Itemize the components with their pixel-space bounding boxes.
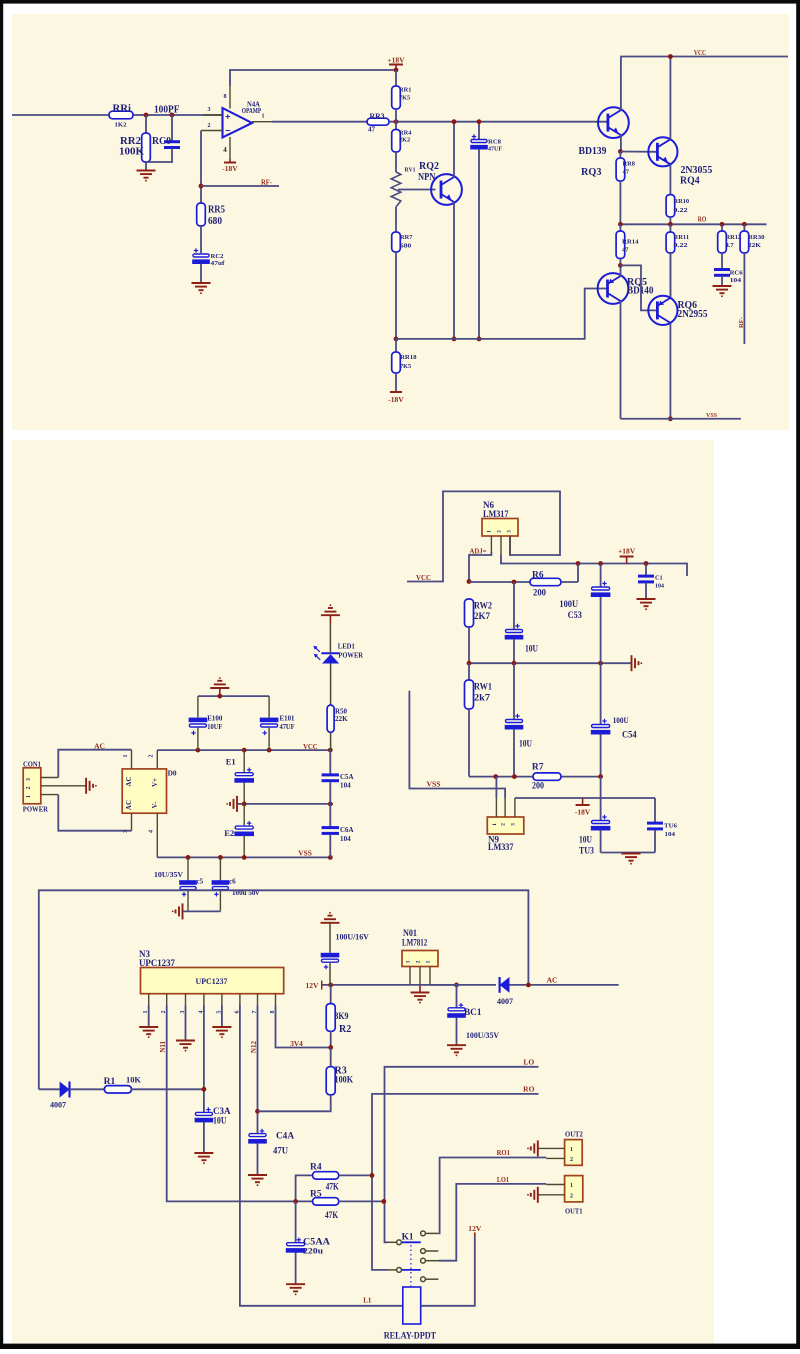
svg-text:RC0: RC0 — [152, 136, 171, 147]
svg-text:RW2: RW2 — [474, 601, 492, 611]
capacitor C4A — [260, 1130, 264, 1132]
wire ADJ down — [469, 552, 491, 582]
wire LED to R50 — [330, 664, 332, 706]
svg-text:1: 1 — [570, 1147, 573, 1153]
svg-text:680: 680 — [208, 216, 222, 227]
svg-text:V+: V+ — [151, 778, 159, 787]
resistor RR14 — [619, 224, 621, 231]
pin 7 N3 — [257, 994, 259, 1005]
wire LO1 from contact — [425, 1260, 438, 1262]
transistor RQ3 BD139 — [598, 107, 629, 138]
svg-text:+18V: +18V — [387, 56, 405, 65]
wire net RF- — [201, 185, 279, 187]
pin 3 CON1 — [41, 777, 59, 779]
svg-text:E100: E100 — [207, 715, 222, 723]
node E mid junctions — [242, 802, 247, 807]
wire VSS rail top schematic — [621, 418, 742, 420]
svg-text:D0: D0 — [168, 769, 177, 778]
node 10U branch — [512, 580, 517, 585]
wire pin6 L1 long — [240, 1005, 403, 1306]
capacitor RC2 — [194, 250, 198, 252]
wire RQ6 collector down — [669, 324, 671, 419]
ground N3 pin5 — [212, 1026, 231, 1028]
svg-text:+: + — [225, 111, 230, 121]
pin 8 V+ — [229, 86, 231, 109]
node bottom rail left — [394, 337, 399, 342]
svg-text:RR12: RR12 — [726, 234, 742, 241]
wire RQ4 collector to VCC — [669, 57, 671, 140]
svg-text:2: 2 — [570, 1157, 573, 1163]
ground N3 pin1 — [139, 1026, 158, 1028]
potentiometer RV1 — [391, 172, 401, 207]
svg-text:4007: 4007 — [50, 1100, 66, 1109]
ground below C1 — [637, 598, 656, 600]
svg-text:10U: 10U — [213, 1116, 227, 1126]
connector OUT2 — [565, 1140, 583, 1166]
transistor RQ2 — [431, 174, 462, 205]
svg-text:2k7: 2k7 — [474, 693, 491, 703]
svg-text:3: 3 — [208, 107, 211, 113]
wire opamp output row — [272, 121, 367, 123]
pin 1 OUT2 — [538, 1147, 565, 1149]
svg-text:RR18: RR18 — [400, 354, 417, 361]
svg-text:3V4: 3V4 — [290, 1040, 303, 1048]
svg-text:1K2: 1K2 — [115, 122, 127, 129]
node RQ3 emitter — [618, 149, 623, 154]
svg-text:RQ2: RQ2 — [419, 161, 439, 172]
transistor RQ6 2N2955 — [648, 296, 677, 325]
wire pin8 3V4 — [276, 1005, 331, 1048]
svg-text:1: 1 — [262, 114, 265, 120]
wire coil right to 12V — [421, 1237, 475, 1306]
regulator N01 LM7812 — [402, 951, 438, 967]
node 3V4 junction — [328, 1045, 333, 1050]
svg-text:RR7: RR7 — [400, 234, 413, 241]
svg-text:1: 1 — [123, 755, 129, 758]
svg-text:3: 3 — [26, 778, 32, 781]
svg-text:3: 3 — [506, 530, 512, 533]
node driver junction — [618, 263, 623, 268]
node pin4 R1 — [202, 1087, 207, 1092]
resistor R4 — [296, 1175, 313, 1201]
pin 3 N3 — [185, 994, 187, 1005]
wire R7 rail — [469, 776, 533, 778]
svg-text:K1: K1 — [402, 1232, 414, 1242]
svg-text:AC: AC — [94, 741, 105, 750]
svg-text:10K: 10K — [126, 1074, 141, 1084]
svg-text:RW1: RW1 — [474, 682, 492, 692]
wire RQ5 emitter up — [620, 265, 622, 276]
pin 2 VIN N9 — [504, 798, 506, 817]
svg-text:200: 200 — [533, 588, 546, 598]
node input junction — [144, 113, 149, 118]
contact A NO — [421, 1231, 426, 1236]
svg-text:2: 2 — [26, 787, 32, 790]
svg-text:LO: LO — [523, 1058, 534, 1067]
wire opamp V+ to +18V rail — [230, 70, 396, 86]
pin 2 inverting — [201, 130, 223, 132]
svg-text:AC: AC — [125, 800, 133, 810]
capacitor E2 — [243, 804, 245, 826]
svg-text:100U/35V: 100U/35V — [466, 1031, 499, 1040]
node +18V junction — [394, 68, 399, 73]
node R5 LO junction — [381, 1199, 386, 1204]
svg-text:C4A: C4A — [276, 1132, 294, 1142]
node RQ2 collector junction — [452, 119, 457, 124]
svg-text:R6: R6 — [532, 570, 544, 580]
capacitor C6A — [329, 804, 331, 827]
svg-text:VCC: VCC — [694, 49, 706, 57]
pin 2 VOUT N6 — [500, 536, 502, 555]
ground below RC2 — [192, 282, 211, 284]
node AC junction — [526, 983, 531, 988]
wire pin1 to ground — [148, 1005, 150, 1027]
pole B contact — [397, 1268, 402, 1273]
svg-text:RR2: RR2 — [120, 136, 141, 147]
pin 4 V- — [229, 137, 231, 159]
node ADJ junction — [467, 579, 472, 584]
node VCC junctions — [196, 748, 201, 753]
svg-text:-18V: -18V — [575, 808, 591, 817]
transistor RQ5 BD140 — [598, 273, 629, 304]
svg-text:C3A: C3A — [213, 1107, 231, 1117]
svg-text:10UF: 10UF — [207, 723, 222, 731]
svg-text:RQ4: RQ4 — [680, 176, 700, 187]
svg-text:R1: R1 — [104, 1077, 116, 1087]
capacitor TU3 — [600, 777, 602, 820]
relay mechanical link — [410, 1245, 412, 1287]
pin 2 N01 — [419, 967, 421, 986]
pin 1 output — [252, 121, 272, 123]
ground mid rail right — [631, 655, 633, 671]
svg-text:680: 680 — [400, 243, 411, 250]
svg-text:TU6: TU6 — [664, 823, 677, 830]
resistor R6 — [530, 578, 561, 585]
svg-text:1: 1 — [426, 960, 432, 963]
svg-text:4: 4 — [223, 146, 227, 154]
svg-text:47uf: 47uf — [211, 260, 226, 267]
wire RQ6 emitter to RR11 — [669, 253, 671, 297]
svg-text:-18V: -18V — [388, 395, 404, 404]
svg-text:RELAY-DPDT: RELAY-DPDT — [384, 1332, 437, 1342]
resistor RR18 — [395, 339, 397, 352]
contact A NC stub — [421, 1249, 426, 1254]
svg-text:100K: 100K — [335, 1074, 354, 1084]
svg-text:10U: 10U — [579, 835, 592, 845]
svg-text:47K: 47K — [325, 1211, 339, 1221]
capacitor RC8 — [478, 122, 480, 139]
svg-text:LM337: LM337 — [488, 842, 514, 852]
resistor R50 — [327, 705, 334, 732]
svg-text:2: 2 — [208, 123, 211, 129]
capacitor E101 — [268, 696, 270, 718]
wire ground to LED — [329, 623, 331, 652]
wire input signal — [12, 114, 223, 116]
svg-text:C6A: C6A — [340, 826, 354, 834]
wire mid ground row bottom — [237, 803, 333, 805]
svg-text:POWER: POWER — [338, 650, 363, 659]
contact B NO — [421, 1258, 426, 1263]
svg-text:12V: 12V — [468, 1224, 482, 1233]
svg-text:100PF: 100PF — [154, 105, 180, 116]
svg-text:3K9: 3K9 — [335, 1012, 349, 1022]
capacitor TU6 — [654, 798, 656, 822]
svg-text:OPAMP: OPAMP — [242, 108, 262, 115]
pin 2 OUT2 — [546, 1157, 564, 1159]
pin 1 CON1 — [41, 794, 59, 796]
ground CON1 pin2 — [85, 778, 87, 794]
node 12V cap junction — [328, 983, 333, 988]
node RF- branch — [199, 184, 204, 189]
svg-text:47U: 47U — [273, 1146, 288, 1156]
svg-text:RR5: RR5 — [208, 205, 225, 216]
svg-text:RO: RO — [698, 216, 707, 224]
resistor R1 — [104, 1086, 131, 1093]
svg-text:1: 1 — [492, 823, 498, 826]
svg-text:LED1: LED1 — [338, 642, 355, 651]
svg-text:BD139: BD139 — [579, 146, 607, 157]
wire mid ground rail — [469, 662, 631, 664]
svg-text:4: 4 — [149, 830, 155, 833]
capacitor C3A — [206, 1109, 210, 1111]
svg-text:2: 2 — [416, 960, 422, 963]
pin 1 N3 — [148, 994, 150, 1005]
wire VSS net — [409, 691, 505, 798]
svg-text:RC2: RC2 — [211, 253, 224, 260]
svg-text:200: 200 — [532, 782, 544, 792]
node RC8 bottom — [477, 337, 482, 342]
wire VCC bottom rail — [157, 749, 330, 751]
wire 12V rail — [322, 984, 457, 986]
pin 5 N3 — [221, 994, 223, 1005]
resistor RR12 — [721, 224, 723, 231]
LED1 POWER chain ground — [321, 614, 340, 616]
capacitor C5AA — [295, 1201, 297, 1242]
svg-text:C5A: C5A — [340, 773, 354, 781]
svg-text:100U: 100U — [559, 599, 578, 609]
regulator N9 LM337 — [487, 817, 524, 834]
svg-text:N12: N12 — [250, 1041, 258, 1054]
capacitor E100 — [197, 696, 199, 718]
svg-text:UPC1237: UPC1237 — [139, 958, 175, 968]
svg-text:V-: V- — [151, 801, 159, 809]
svg-text:R7: R7 — [532, 763, 544, 773]
svg-text:C54: C54 — [622, 730, 637, 740]
svg-text:+18V: +18V — [618, 547, 636, 556]
resistor RR30 — [743, 224, 745, 231]
node R7 junctions — [493, 774, 498, 779]
capacitor BC1 — [456, 985, 458, 1008]
svg-text:RF-: RF- — [261, 178, 273, 186]
pin 2 OUT1 — [538, 1194, 565, 1196]
svg-text:47UF: 47UF — [280, 723, 295, 731]
svg-text:2K7: 2K7 — [474, 611, 490, 621]
svg-text:2: 2 — [501, 823, 507, 826]
svg-text:CON1: CON1 — [23, 759, 41, 768]
power -18V bottom — [390, 391, 402, 393]
wire VCC to LM317 VIN — [407, 491, 560, 581]
capacitor C53 — [600, 564, 602, 587]
wire RO net — [372, 1094, 539, 1270]
resistor RRi — [109, 111, 133, 119]
capacitor c5 — [187, 857, 189, 880]
ground below RR2 — [137, 170, 156, 172]
pole A contact — [397, 1240, 402, 1245]
resistor RR10 — [669, 165, 671, 195]
power -18V symbol — [582, 798, 584, 805]
svg-text:RR11: RR11 — [674, 234, 690, 241]
resistor RR7 — [392, 232, 401, 252]
svg-text:R4: R4 — [310, 1162, 322, 1172]
svg-text:7K5: 7K5 — [399, 94, 411, 101]
node mid rail junctions — [467, 661, 472, 666]
wire RQ3 emitter — [620, 135, 622, 152]
svg-text:R2: R2 — [339, 1024, 351, 1035]
ground below RC6 — [713, 285, 732, 287]
ground c5 c6 — [182, 903, 184, 919]
svg-text:4007: 4007 — [497, 997, 513, 1006]
svg-text:UPC1237: UPC1237 — [196, 977, 228, 986]
ground N3 pin3 — [176, 1040, 195, 1042]
wire pin5 to ground — [221, 1005, 223, 1027]
power -18V opamp — [229, 159, 231, 162]
contact B NC stub — [421, 1277, 426, 1282]
capacitor C1 — [645, 564, 647, 576]
capacitor 100U/16V — [321, 922, 340, 924]
bridge rectifier D0 — [122, 769, 166, 813]
resistor R3 — [330, 1048, 332, 1067]
svg-text:47K: 47K — [326, 1182, 340, 1192]
connector OUT1 — [565, 1176, 583, 1202]
capacitor C54 — [600, 663, 602, 724]
svg-text:POWER: POWER — [23, 805, 49, 814]
wire pin7 down — [257, 1005, 259, 1134]
resistor R7 — [533, 773, 561, 780]
svg-text:RO: RO — [523, 1085, 534, 1094]
diode D2 4007 sense — [39, 1088, 60, 1090]
svg-text:RC6: RC6 — [730, 270, 743, 277]
wire pin3 to ground — [185, 1005, 187, 1040]
wire VCC rail — [620, 56, 788, 58]
connector CON1 — [23, 768, 41, 804]
node VSS junctions — [186, 855, 191, 860]
ground C5AA — [286, 1283, 305, 1285]
svg-text:22K: 22K — [335, 714, 348, 723]
svg-text:RR10: RR10 — [674, 198, 690, 205]
node BC1 junction — [454, 983, 459, 988]
op-amp N4A — [223, 108, 253, 138]
svg-text:E2: E2 — [224, 828, 234, 838]
wire AC bottom — [58, 795, 131, 831]
svg-text:RF-: RF- — [738, 317, 745, 328]
svg-text:3: 3 — [406, 960, 412, 963]
pin 1 ADJ N9 — [495, 798, 497, 817]
svg-text:104: 104 — [340, 835, 351, 843]
svg-text:47: 47 — [623, 168, 630, 175]
svg-text:10U: 10U — [525, 644, 538, 654]
node RQ6 collector VSS — [668, 416, 673, 421]
wire RO rail — [620, 223, 766, 225]
svg-text:1: 1 — [487, 530, 493, 533]
svg-text:RR8: RR8 — [623, 161, 636, 168]
regulator N6 LM317 — [482, 519, 518, 537]
node RQ2 emitter junction — [452, 337, 457, 342]
pin 4 D0 — [156, 813, 158, 857]
wire AC top — [58, 750, 131, 778]
svg-text:OUT2: OUT2 — [565, 1131, 583, 1138]
svg-text:1: 1 — [26, 795, 32, 798]
svg-text:LO1: LO1 — [497, 1176, 509, 1184]
svg-text:0.22: 0.22 — [674, 242, 688, 249]
svg-text:C53: C53 — [568, 611, 583, 621]
svg-text:RR30: RR30 — [748, 234, 765, 241]
svg-text:VCC: VCC — [303, 742, 318, 751]
relay coil L1 — [403, 1287, 421, 1324]
svg-text:8: 8 — [224, 94, 227, 100]
svg-text:100K: 100K — [119, 147, 145, 158]
svg-text:47: 47 — [622, 246, 629, 253]
svg-text:R5: R5 — [310, 1190, 322, 1200]
pin 8 N3 — [275, 994, 277, 1005]
wire inverting input to RR5 — [200, 131, 202, 204]
svg-text:LM317: LM317 — [483, 509, 509, 519]
svg-text:104: 104 — [340, 782, 351, 790]
svg-text:N11: N11 — [159, 1041, 167, 1053]
wire RV1 to RR7 — [395, 207, 397, 232]
wire R50 to VCC — [330, 732, 332, 750]
svg-text:AC: AC — [547, 975, 558, 984]
wire ADJ node row — [469, 581, 530, 583]
wire RQ3-RQ4 base link — [620, 151, 657, 153]
svg-text:RR4: RR4 — [399, 130, 412, 137]
pin 3 VIN N6 — [509, 536, 511, 555]
svg-text:RR14: RR14 — [622, 238, 639, 245]
pin 3 VOUT N9 — [514, 798, 516, 817]
wire E100 E101 ground row — [198, 695, 269, 697]
wire RQ2 emitter — [453, 202, 455, 339]
node RQ4 collector VCC — [668, 54, 673, 59]
ground above E100 row — [219, 688, 221, 696]
wire N9 ADJ up — [495, 777, 497, 798]
svg-text:4.7: 4.7 — [726, 242, 735, 249]
pin 3 N01 — [409, 967, 411, 985]
resistor RR2 — [145, 115, 147, 133]
svg-text:RC8: RC8 — [488, 139, 501, 146]
wire RV1 wiper to RQ2 base — [398, 189, 436, 191]
capacitor 10U first — [513, 582, 515, 629]
resistor R2 — [330, 985, 332, 1004]
wire RQ3 collector to VCC — [620, 57, 622, 111]
wire AC sense long — [39, 890, 529, 1089]
svg-text:10U/35V: 10U/35V — [154, 871, 183, 879]
capacitor RC6 — [714, 268, 730, 271]
resistor R5 — [296, 1200, 313, 1202]
pin 2 N3 — [166, 994, 168, 1005]
ground N01 pin2 — [419, 986, 421, 993]
svg-text:0.22: 0.22 — [674, 207, 688, 214]
transistor RQ4 2N3055 — [648, 137, 677, 166]
svg-text:2N2955: 2N2955 — [678, 309, 708, 320]
node RC8 top — [477, 119, 482, 124]
diode D3 4007 AC — [430, 984, 496, 986]
svg-text:L1: L1 — [363, 1296, 372, 1304]
wire pin4 down — [203, 1005, 205, 1112]
svg-text:NPN: NPN — [418, 172, 436, 183]
svg-text:E1: E1 — [226, 756, 236, 766]
resistor RR8 — [619, 152, 621, 159]
wire RQ2 collector — [453, 122, 455, 177]
wire VSS bottom rail — [157, 856, 330, 858]
